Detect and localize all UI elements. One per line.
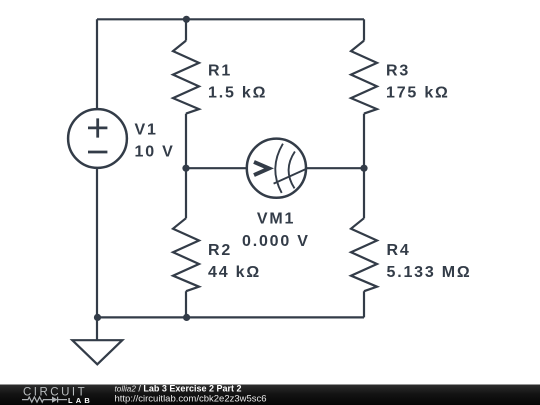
- wire right vertical upper stub: [363, 19, 365, 40]
- wire voltmeter left: [186, 167, 247, 169]
- svg-text:LAB: LAB: [68, 396, 93, 405]
- CircuitLab logo resistor-diode squiggle: [22, 397, 67, 403]
- wire left vertical lower: [96, 168, 98, 318]
- resistor R2: [173, 218, 199, 291]
- wire top horizontal: [97, 18, 364, 20]
- svg-text:VM1: VM1: [257, 210, 295, 227]
- svg-text:0.000 V: 0.000 V: [242, 233, 310, 250]
- resistor R3: [351, 41, 377, 114]
- node dot mid-left: [182, 165, 189, 172]
- voltage source V1: [68, 109, 127, 168]
- voltmeter VM1: [247, 139, 307, 198]
- svg-text:tollia2 / Lab 3 Exercise 2 Par: tollia2 / Lab 3 Exercise 2 Part 2: [115, 383, 242, 393]
- ground: [72, 340, 122, 364]
- svg-text:44 kΩ: 44 kΩ: [208, 264, 261, 281]
- node dot top: [183, 16, 190, 23]
- svg-text:R4: R4: [387, 242, 411, 259]
- svg-text:175 kΩ: 175 kΩ: [386, 85, 450, 102]
- wire right vertical lower stub: [363, 291, 365, 317]
- node dot bottom-left: [94, 314, 101, 321]
- wire bottom horizontal: [97, 316, 364, 318]
- wire middle vertical lower stub: [185, 291, 187, 317]
- svg-text:R1: R1: [208, 63, 232, 80]
- wire voltmeter right: [306, 167, 364, 169]
- svg-text:10 V: 10 V: [135, 144, 175, 161]
- resistor R1: [173, 41, 199, 114]
- wire middle vertical upper stub: [185, 19, 187, 40]
- node dot mid-right: [360, 165, 367, 172]
- node dot bottom-mid: [183, 314, 190, 321]
- wire middle vertical between R1 and R2: [185, 114, 187, 219]
- svg-text:1.5 kΩ: 1.5 kΩ: [208, 85, 267, 102]
- svg-text:R2: R2: [208, 242, 232, 259]
- svg-text:V1: V1: [135, 122, 158, 139]
- ground stub wire: [96, 317, 98, 340]
- resistor R4: [351, 218, 377, 291]
- wire right vertical between R3 and R4: [363, 114, 365, 219]
- svg-text:5.133 MΩ: 5.133 MΩ: [387, 264, 472, 281]
- svg-text:http://circuitlab.com/cbk2e2z3: http://circuitlab.com/cbk2e2z3w5sc6: [115, 394, 267, 405]
- svg-text:R3: R3: [386, 63, 410, 80]
- wire left vertical upper: [96, 19, 98, 109]
- footer bar: [0, 385, 540, 405]
